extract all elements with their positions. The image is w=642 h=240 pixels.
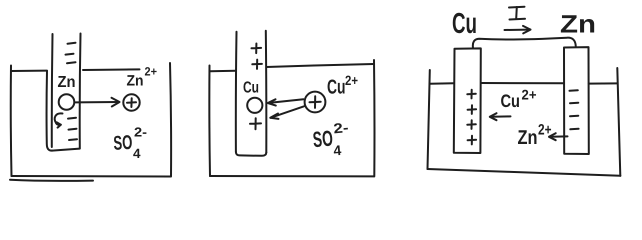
svg-text:2-: 2- [134,125,147,140]
minus charge dash 1 (Zn bar) [570,89,578,92]
svg-text:2-: 2- [333,119,350,136]
Cu electrode bar (cell) [454,48,481,153]
plus inside Cu2+ ion [310,96,321,108]
beaker 2 right wall [373,60,375,176]
svg-text:Cu: Cu [501,91,521,111]
minus charge dash 2 [66,53,74,56]
Zn electrode tube left wall [51,34,54,147]
Cu electrode tube bottom (rounded) [236,152,266,156]
plus charge 2 [252,60,262,69]
minus charge dash 1 (top of Zn electrode) [68,43,76,44]
plus charge 1 (Cu bar) [467,90,476,99]
minus charge dash 5 [69,128,77,131]
arrow Cu2+ drift left [492,115,511,117]
Zn atom circle [59,94,75,110]
beaker 2 bottom [210,175,374,177]
beaker 2 solution level right [267,64,374,67]
Cu electrode tube left wall [235,32,238,152]
arrow Zn2+ drift left [551,135,568,137]
beaker 3 right wall [617,68,620,176]
Zn electrode tube bottom [52,149,80,151]
svg-text:2+: 2+ [145,65,158,79]
plus charge 2 [468,105,477,114]
Cu2+ ion circle [305,92,326,113]
minus charge dash 6 [69,138,77,141]
plus charge below Cu atom [250,118,261,129]
beaker 3 solution level right [589,82,618,84]
electron-release curved arrow [55,113,63,124]
minus charge dash 3 [570,115,578,118]
Cu electrode tube right wall [265,31,268,153]
plus charge 4 [468,136,477,145]
label I stem [515,7,518,19]
arrow from Zn atom to Zn2+ ion [76,101,119,103]
beaker 1 solution level right [83,68,140,71]
minus charge dash 4 [570,128,578,131]
arrow Cu2+ to plus (lower) [272,106,305,117]
minus charge dash 2 [570,102,578,105]
minus charge dash 4 (below atom) [68,117,76,120]
svg-text:Zn: Zn [127,73,144,90]
beaker 1 left wall [10,66,13,177]
Zn electrode tube outer-left stroke [47,71,52,151]
wire connecting electrodes [473,38,576,48]
Zn electrode tube right wall [79,34,82,149]
svg-text:Zn: Zn [518,127,538,149]
beaker 1 bottom overdraw stroke [10,180,93,181]
plus charge 1 (top of Cu electrode) [252,44,262,54]
Cu atom circle [247,98,262,113]
svg-text:2+: 2+ [345,73,358,88]
svg-text:Cu: Cu [452,8,477,40]
svg-text:4: 4 [133,146,141,161]
beaker 1 right wall [170,63,171,177]
beaker 2 solution level left [210,70,236,72]
current direction arrow [505,29,530,31]
plus inside Zn2+ ion [127,98,136,107]
beaker 3 solution level left [430,82,454,85]
Zn2+ ion circle [123,94,139,110]
arrow Cu2+ to atom (upper) [269,99,304,103]
beaker 3 bottom [428,169,621,176]
plus charge 3 [467,120,476,129]
label I bottom bar [510,18,526,21]
svg-text:SO: SO [312,126,334,153]
svg-text:4: 4 [333,142,342,159]
label I (current) top bar [509,6,525,9]
svg-text:Zn: Zn [560,11,596,39]
Zn electrode bar (cell) [564,47,589,154]
svg-text:Cu: Cu [243,80,259,97]
beaker 1 solution level left [12,70,48,72]
minus charge dash 3 [67,62,76,63]
beaker 3 left wall [428,70,430,169]
svg-text:SO: SO [113,132,133,155]
svg-text:Zn: Zn [58,74,76,91]
beaker 3 solution level middle [481,82,564,84]
beaker 1 bottom [12,175,171,178]
svg-text:2+: 2+ [522,87,537,103]
svg-text:Cu: Cu [327,77,346,99]
beaker 2 left wall [208,66,211,177]
